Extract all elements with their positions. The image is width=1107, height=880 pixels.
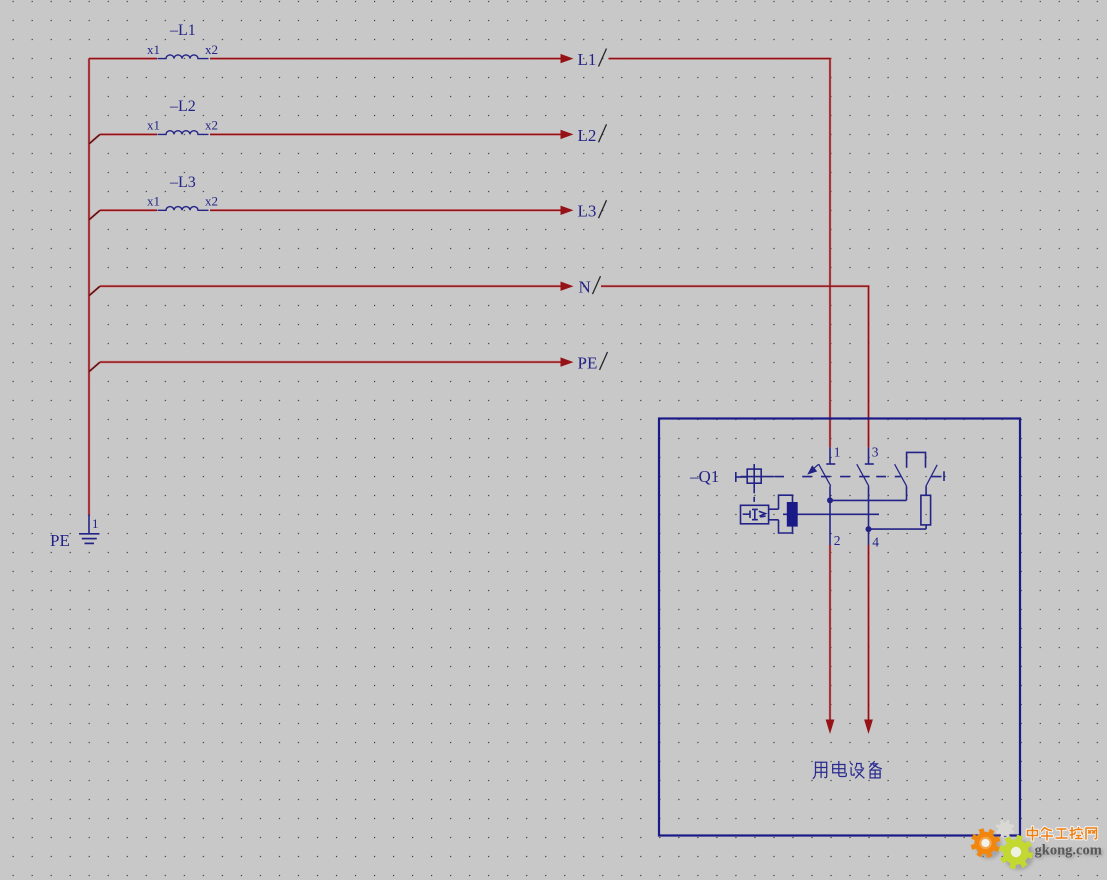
ground symbol: [79, 534, 100, 544]
pole3 test return wire: [869, 528, 927, 530]
svg-text:2: 2: [834, 533, 841, 548]
wire: N continuation to breaker: [601, 286, 869, 447]
svg-text:1: 1: [834, 445, 841, 460]
wire: branch jogs (dark overdraw): [89, 135, 99, 372]
wire: L1 row horizontal left of inductor: [89, 58, 157, 60]
wire: PE row horizontal: [100, 361, 561, 363]
green gear: [999, 835, 1033, 869]
pole3 lower lead: [868, 486, 870, 545]
pole3 upper lead: [868, 447, 870, 463]
phase mark slash L3: [599, 200, 607, 218]
char 备: [870, 762, 882, 778]
inductor L2: [158, 131, 209, 135]
inductor L3: [158, 207, 209, 211]
pole3 blade: [857, 464, 869, 486]
svg-text:x2: x2: [205, 42, 218, 57]
Q1 latch cross horizontal: [741, 476, 774, 478]
Q1 dashed link to trip unit: [753, 488, 755, 505]
svg-text:3: 3: [872, 445, 879, 460]
Q1 mechanical latch square: [747, 469, 761, 483]
I> letter I: [752, 509, 758, 519]
pole3 junction dot: [866, 526, 872, 532]
trip coil stub lower: [769, 519, 779, 521]
wire: L2 row horizontal right of inductor: [210, 133, 561, 135]
arrow: load N down arrowhead: [864, 720, 873, 735]
ground PE lead (blue): [88, 515, 90, 534]
pole1 upper lead: [829, 447, 831, 463]
phase mark slash L1: [599, 49, 607, 67]
wire: N branch jog: [89, 286, 100, 296]
svg-text:–L3: –L3: [169, 174, 196, 191]
Q1 linkage dashed line: [775, 476, 942, 478]
test button branch: [895, 452, 938, 529]
pole1 lower lead: [829, 486, 831, 545]
svg-text:–L1: –L1: [169, 22, 196, 39]
watermark logo: [971, 820, 1104, 870]
arrow L3: [561, 206, 574, 215]
svg-text:L3: L3: [578, 202, 597, 221]
wire halo (jpeg ringing imitation): [89, 59, 869, 721]
svg-text:4: 4: [872, 535, 879, 550]
MAIN WIRES (red): [89, 59, 869, 721]
pole1 fixed contact tick: [826, 463, 835, 465]
orange gear: [971, 828, 1001, 858]
pole3 fixed contact tick: [865, 463, 874, 465]
Q1 left actuator terminal: [735, 472, 737, 482]
wire: L2 row horizontal left of inductor: [100, 133, 157, 135]
svg-text:L2: L2: [578, 126, 597, 145]
phase mark slash PE: [600, 352, 608, 370]
svg-text:N: N: [579, 278, 591, 297]
trip coil bracket: [779, 495, 793, 533]
wire: vertical trunk bus: [88, 59, 90, 516]
wire: L3 row horizontal left of inductor: [100, 209, 157, 211]
svg-text:L1: L1: [578, 50, 597, 69]
breaker pole 3-4 (N): [857, 447, 926, 545]
wire: load feed N down from breaker pole 3: [868, 545, 870, 721]
pole1 junction dot: [827, 497, 833, 503]
test blade left lower lead: [906, 486, 908, 500]
Q1 residual current trip unit box I>: [741, 505, 769, 524]
equipment box 用电设备 outline: [659, 419, 1020, 836]
trip coil stub upper: [769, 508, 779, 510]
Q1 latch cross vertical: [753, 464, 755, 488]
breaker Q1 mechanism group: [736, 464, 944, 533]
test resistor lower lead: [925, 525, 927, 529]
breaker pole 1-2 (L): [812, 447, 907, 545]
load equipment label 用电设备: [813, 762, 881, 779]
trip coil core (filled): [787, 502, 798, 527]
svg-text:x1: x1: [147, 118, 160, 133]
phase mark slash L2: [599, 124, 607, 142]
I> symbol inside box: [743, 513, 750, 515]
char 设: [851, 763, 864, 778]
wire: load feed L down from breaker pole 1: [829, 545, 831, 721]
svg-text:x2: x2: [205, 118, 218, 133]
pole1 blade: [819, 464, 831, 486]
arrow L2: [561, 130, 574, 139]
wire: L3 row horizontal right of inductor: [210, 209, 561, 211]
svg-text:1: 1: [92, 516, 99, 531]
svg-text:PE: PE: [50, 531, 70, 550]
svg-text:PE: PE: [578, 354, 598, 373]
test resistor R: [921, 495, 931, 525]
pole1 release arrowhead: [807, 465, 817, 474]
phase mark slash N: [593, 276, 601, 294]
test resistor upper lead: [925, 486, 927, 495]
inductor L1: [158, 55, 209, 59]
arrow PE: [561, 357, 574, 366]
svg-text:x2: x2: [205, 194, 218, 209]
test blade right: [926, 465, 937, 486]
test contact bracket: [907, 452, 926, 467]
pole1 test tap wire: [830, 499, 907, 501]
arrow N: [561, 282, 574, 291]
wire: L1 row horizontal right of inductor: [210, 58, 561, 60]
svg-text:–L2: –L2: [169, 98, 196, 115]
svg-text:x1: x1: [147, 42, 160, 57]
I> greater-than: [759, 511, 766, 517]
svg-text:x1: x1: [147, 194, 160, 209]
gray gear back: [996, 820, 1015, 839]
wire: L3 branch jog: [89, 210, 100, 220]
gear shadows: [976, 833, 1035, 870]
char 用: [813, 762, 826, 778]
watermark text 中华工控网: [1028, 827, 1097, 840]
Q1 linkage end tick: [943, 471, 945, 481]
wire: L1 continuation to breaker: [609, 59, 831, 448]
trip coil output line: [783, 513, 879, 515]
svg-text:gkong.com: gkong.com: [1035, 843, 1102, 859]
svg-text:–Q1: –Q1: [689, 467, 719, 486]
pole1 release arrow shaft: [812, 464, 819, 470]
char 电: [833, 762, 847, 777]
wire: PE branch jog: [89, 362, 100, 372]
wire: L2 branch jog: [89, 134, 100, 144]
arrow L1: [561, 54, 574, 63]
test blade left: [895, 464, 907, 486]
arrow: load L down arrowhead: [826, 720, 835, 735]
wire: N row horizontal: [100, 285, 561, 287]
